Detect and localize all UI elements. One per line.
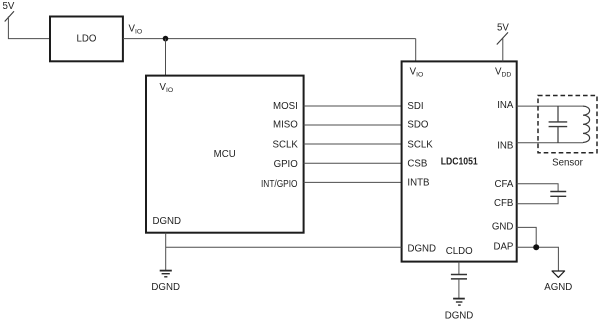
wire 5V flag to LDC VDD pin [502,39,504,62]
svg-text:SDI: SDI [407,101,423,112]
sensor boundary (dashed) [538,96,597,153]
svg-text:DAP: DAP [493,241,513,252]
wire MOSI to SDI [304,105,402,107]
wire INA to sensor [517,105,584,107]
svg-text:MISO: MISO [273,120,298,131]
wire MCU DGND to LDC DGND pin [166,246,402,248]
svg-text:DGND: DGND [153,216,182,227]
wire VIO rail down to MCU VIO pin [165,39,167,76]
wire INT/GPIO to INTB [304,181,402,183]
wire INB to sensor [517,142,584,144]
MCU block [146,76,304,233]
wire CLDO capacitor to ground [458,279,460,298]
power flag 5V (LDO input) [3,1,15,22]
junction GND/DAP [533,244,539,250]
svg-text:GPIO: GPIO [274,159,299,170]
IC LDC1051 [402,61,517,261]
wire CFA to capacitor [517,184,559,191]
wire VIO rail (LDO output to LDC VIO drop) [123,38,416,40]
capacitor CLDO bypass [451,275,467,279]
wire GND to DAP net [517,227,537,247]
svg-text:LDO: LDO [77,33,97,44]
wire VIO rail down to LDC VIO pin [415,39,417,62]
svg-text:INB: INB [497,141,513,152]
svg-text:MCU: MCU [214,149,236,160]
svg-text:5V: 5V [497,23,509,34]
ground AGND (open triangle) [552,271,565,277]
svg-text:SCLK: SCLK [272,140,298,151]
junction VIO rail / MCU supply [163,36,169,42]
wire CFB to capacitor [517,197,559,204]
svg-text:LDC1051: LDC1051 [441,157,479,168]
svg-text:DGND: DGND [408,243,437,254]
svg-text:5V: 5V [3,1,15,12]
inductor sensor tank L [583,106,590,142]
regulator LDO [50,17,123,62]
wire DAP to AGND [517,247,559,270]
wire CLDO to capacitor [458,262,460,274]
svg-text:CSB: CSB [407,159,427,170]
svg-text:INTB: INTB [407,177,429,188]
ground DGND (CLDO) [453,299,465,306]
svg-text:SDO: SDO [407,120,428,131]
svg-text:CLDO: CLDO [446,246,473,257]
wire MISO to SDO [304,124,402,126]
svg-text:DGND: DGND [445,311,474,322]
capacitor sensor tank C [549,106,568,143]
svg-text:SCLK: SCLK [407,140,433,151]
wire 5V flag to LDO input [8,16,50,38]
wire GPIO to CSB [304,162,402,164]
ground DGND (MCU) [160,271,172,277]
svg-text:INT/GPIO: INT/GPIO [261,179,298,190]
wire MCU DGND down to ground [165,233,167,271]
svg-text:CFB: CFB [494,198,513,209]
svg-text:Sensor: Sensor [552,158,583,169]
svg-text:GND: GND [492,222,514,233]
wire SCLK to SCLK [304,143,402,145]
svg-text:CFA: CFA [495,179,514,190]
capacitor CFA-CFB [550,192,566,197]
svg-text:INA: INA [497,100,514,111]
svg-text:DGND: DGND [151,282,180,293]
power flag 5V (VDD) [497,23,510,45]
svg-text:AGND: AGND [544,282,572,293]
svg-text:MOSI: MOSI [273,101,298,112]
